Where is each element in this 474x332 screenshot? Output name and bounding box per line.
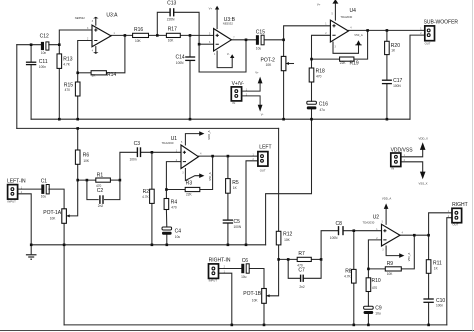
svg-text:4.7K: 4.7K [63, 63, 70, 67]
wire C11 top lead [30, 45, 32, 62]
svg-text:V50_A: V50_A [407, 253, 411, 262]
wire U2 VDD stem [385, 208, 387, 224]
resistor R3 [185, 187, 200, 191]
svg-text:10n: 10n [41, 51, 47, 55]
resistor R5 [226, 179, 231, 194]
resistor R12 [276, 231, 281, 245]
resistor R19 [340, 57, 354, 61]
wire node to C3 [120, 152, 137, 180]
resistor R17 [166, 33, 180, 37]
svg-text:100n: 100n [130, 157, 137, 161]
junction dots middle [30, 151, 247, 246]
svg-text:V+: V+ [209, 7, 213, 11]
V+ arrow [258, 77, 263, 84]
wire node up to C8 [321, 231, 338, 260]
svg-text:C4: C4 [175, 229, 182, 235]
wire left input column [16, 45, 18, 129]
VSS_X arrow [420, 172, 426, 180]
svg-text:100n: 100n [39, 65, 46, 69]
resistor R16 [133, 33, 149, 37]
svg-text:470: 470 [372, 286, 378, 290]
wire V+/V- pin1 to V+ arrow [242, 83, 261, 91]
svg-text:4.7K: 4.7K [344, 275, 351, 279]
wire U4 feedback row to R19 [312, 58, 340, 60]
svg-text:U3:A: U3:A [106, 13, 118, 19]
wire U2 V50_A stem [386, 246, 399, 256]
svg-text:TDA2030: TDA2030 [162, 141, 174, 145]
svg-text:C15: C15 [256, 30, 265, 36]
wire POT-1B bottom to bottom rail [263, 303, 265, 325]
wire U1 VDD_A stem [185, 134, 199, 145]
wire R7 right lead [311, 258, 321, 260]
connector LEFT [258, 152, 268, 167]
wire mix signal rail [17, 127, 279, 129]
svg-text:10u: 10u [41, 194, 47, 198]
svg-text:U4: U4 [350, 8, 357, 14]
svg-text:OUT: OUT [425, 41, 431, 45]
svg-text:10u: 10u [241, 275, 247, 279]
wire U2 output to RIGHT pin1 [400, 213, 452, 235]
svg-text:10K: 10K [266, 63, 273, 67]
wire filter ground rail [31, 118, 410, 120]
resistor R7 [297, 257, 311, 261]
wire U3:A power stubs [95, 19, 97, 53]
wire ground rail to SUB-WOOFER pin2 [410, 35, 425, 119]
connector SUB-WOOFER [425, 26, 435, 41]
potentiometer POT-1B [262, 289, 270, 304]
wire R10 to C9 to bottom rail [367, 292, 369, 325]
wire C11 bottom to ground rail [30, 65, 32, 119]
svg-text:IN: IN [233, 101, 236, 105]
capacitor C13 [170, 8, 174, 16]
svg-text:LEFT: LEFT [259, 145, 271, 151]
wire feedback row to R14 [78, 72, 91, 74]
svg-text:U2: U2 [373, 214, 380, 220]
junction dots top-left [30, 34, 388, 130]
wire U4 output row to SUB-WOOFER pin1 [348, 29, 424, 31]
svg-text:C13: C13 [167, 0, 176, 6]
resistor R15 [75, 82, 80, 96]
svg-text:SUB-WOOFER: SUB-WOOFER [424, 20, 459, 26]
svg-text:V50_A: V50_A [354, 33, 363, 37]
resistor R10 [366, 278, 371, 292]
svg-text:RIGHT: RIGHT [452, 202, 468, 208]
wire R19 to U4 output [354, 30, 368, 59]
wire R1 right lead [110, 179, 120, 181]
wire R17 to U3:B pin5 [180, 34, 213, 36]
wire R2 column [151, 152, 153, 245]
op-amp U3:A [92, 17, 111, 54]
svg-text:C12: C12 [40, 33, 49, 39]
wire U1 V50_A stem [185, 169, 199, 181]
svg-text:C14: C14 [176, 55, 185, 61]
svg-text:RIGHT-IN: RIGHT-IN [209, 258, 231, 264]
resistor R6 [75, 150, 80, 164]
connector VDD/VSS [391, 153, 401, 167]
wire C13 left leg [157, 12, 169, 35]
svg-text:10K: 10K [284, 238, 291, 242]
wire R16 to R17 [149, 34, 167, 36]
wire R9 row [368, 235, 414, 269]
VDD_A arrow U1 [199, 131, 204, 136]
wire R15 top lead [77, 73, 79, 82]
svg-text:220N: 220N [167, 17, 175, 21]
svg-text:R3: R3 [186, 181, 193, 187]
wire R6 leads [77, 128, 79, 180]
svg-text:OUT: OUT [260, 168, 266, 172]
wire C16 bottom to ground path [266, 109, 312, 244]
wire R3 row [166, 156, 212, 189]
svg-text:VSS_X: VSS_X [419, 181, 428, 185]
svg-text:VDD_X: VDD_X [419, 136, 428, 140]
wire mix rail down to R12 [278, 128, 280, 231]
svg-text:INPUT: INPUT [209, 279, 218, 283]
V50_A arrow U2 [399, 253, 404, 258]
wire C8 to U2 pin+ [344, 230, 382, 232]
svg-text:V50_A: V50_A [208, 172, 212, 181]
junction dots top-right [282, 29, 388, 60]
capacitor C12 [41, 42, 49, 50]
svg-text:POT-1B: POT-1B [243, 291, 261, 297]
wire RIGHT-IN pin2 to C6 [219, 268, 242, 270]
capacitor C9 [364, 306, 374, 314]
capacitor C16 [307, 101, 317, 109]
wire POT-2 wiper stub [286, 63, 294, 65]
resistor R1 [96, 178, 111, 182]
svg-text:R11: R11 [433, 260, 442, 266]
svg-text:10K: 10K [252, 298, 259, 302]
svg-text:10K: 10K [168, 39, 175, 43]
wire U4 V+ pin [334, 3, 336, 21]
svg-text:22K: 22K [340, 61, 347, 65]
wire VDD/VSS pin2 to VSS_X arrow [401, 162, 423, 174]
svg-text:R13: R13 [63, 56, 72, 62]
svg-text:C7: C7 [298, 268, 305, 274]
wire C10 bottom to bottom rail [428, 303, 430, 325]
capacitor C4 [162, 227, 172, 235]
wire POT-2 column up to U4 pin+ [284, 26, 331, 57]
wire bottom ground rail [64, 324, 447, 326]
svg-text:R5: R5 [232, 180, 239, 186]
wire V+/V- pin2 to V- arrow [242, 96, 261, 105]
svg-text:POT-1A: POT-1A [43, 210, 61, 216]
svg-text:LEFT-IN: LEFT-IN [7, 178, 26, 184]
wire U3:B V- loop [217, 51, 232, 68]
svg-text:10u: 10u [375, 312, 381, 316]
svg-text:C3: C3 [134, 141, 141, 147]
resistor R9 [385, 267, 401, 271]
wire C15 right to POT-2 column [264, 39, 283, 41]
svg-text:100N: 100N [234, 225, 242, 229]
svg-text:V+: V+ [255, 70, 259, 74]
wire main ground rail [31, 244, 265, 246]
svg-text:100n: 100n [436, 304, 443, 308]
wire U3:B V+ pin [216, 10, 218, 29]
op-amp U1 [181, 145, 198, 169]
wire U1 output row to LEFT pin1 [198, 155, 258, 157]
svg-text:V-: V- [261, 113, 264, 117]
capacitor C7 [301, 275, 304, 282]
resistor R2 [150, 189, 155, 203]
capacitor C17 [382, 80, 392, 83]
svg-text:R16: R16 [134, 27, 143, 33]
wire RIGHT-IN pin1 to bottom rail [219, 273, 232, 325]
svg-text:10K: 10K [83, 159, 90, 163]
svg-text:R6: R6 [83, 152, 90, 158]
svg-text:22K: 22K [186, 193, 193, 197]
svg-text:IN: IN [391, 167, 394, 171]
svg-text:470: 470 [65, 88, 71, 92]
wire node row to R1 [78, 179, 96, 181]
resistor R20 [385, 41, 390, 54]
svg-text:VDD/VSS: VDD/VSS [391, 148, 414, 154]
connector LEFT-IN [8, 185, 18, 200]
svg-text:10K: 10K [135, 39, 142, 43]
V- arrow [258, 105, 263, 112]
resistor R13 [57, 54, 62, 69]
svg-text:V-: V- [227, 52, 230, 56]
wire R15 bottom to ground rail [77, 96, 79, 119]
connector RIGHT [452, 208, 462, 222]
V+ arrow U4 (clipped at top) [332, 0, 338, 4]
svg-text:470: 470 [171, 205, 177, 209]
svg-text:VDD_A: VDD_A [207, 130, 211, 139]
wire C7 loop [288, 259, 321, 278]
svg-text:C6: C6 [242, 258, 249, 264]
svg-text:TDA2030: TDA2030 [363, 221, 375, 225]
wire LEFT-IN pin2 to ground junction [18, 194, 32, 245]
svg-text:INPUT: INPUT [8, 200, 17, 204]
connector V+/V- [231, 87, 241, 101]
capacitor C6 [241, 264, 249, 273]
wire C6 to POT-1B top [250, 269, 264, 289]
capacitor C3 [137, 147, 140, 157]
svg-text:10K: 10K [50, 216, 57, 220]
wire POT-2 bottom to ground rail [283, 71, 285, 120]
wire POT-1A wiper to node [66, 180, 77, 216]
wire R13 top lead [58, 45, 60, 54]
VDD_X arrow [420, 142, 426, 150]
VDD_A arrow U2 [384, 203, 389, 209]
wire U4 inverting input [312, 35, 331, 59]
wire U3:B pin6 [199, 43, 214, 45]
svg-text:4.7K: 4.7K [142, 195, 149, 199]
svg-text:100N: 100N [330, 236, 338, 240]
svg-text:R9: R9 [387, 261, 394, 267]
op-amp U4 [330, 20, 348, 42]
capacitor C8 [339, 226, 344, 235]
wire U2 inverting input [368, 240, 381, 278]
svg-text:R1: R1 [97, 173, 104, 179]
resistor R18 [309, 68, 314, 82]
potentiometer POT-2 [281, 56, 289, 70]
svg-text:2n2: 2n2 [299, 285, 305, 289]
svg-text:R7: R7 [298, 251, 305, 257]
svg-text:C2: C2 [97, 188, 104, 194]
svg-text:10u: 10u [256, 46, 262, 50]
svg-text:100N: 100N [176, 61, 184, 65]
svg-text:470: 470 [316, 75, 322, 79]
svg-text:C16: C16 [319, 102, 328, 108]
wire C3 to U1 pin+ [141, 151, 181, 153]
wire C1 to POT-1A top [49, 189, 64, 209]
wire LEFT-IN pin1 to C1 [18, 188, 42, 190]
svg-text:NE5532: NE5532 [75, 16, 86, 20]
wire R20 to C17 [386, 55, 388, 80]
svg-text:47u: 47u [320, 108, 326, 112]
capacitor C2 [100, 195, 103, 204]
svg-text:10K: 10K [387, 272, 394, 276]
svg-text:OUT: OUT [453, 223, 459, 227]
V- arrow U3:B [230, 54, 234, 58]
capacitor C1 [41, 185, 49, 194]
op-amp U2 [382, 224, 401, 246]
wire LEFT pin2 to ground rail [246, 161, 258, 245]
junction dots bottom [231, 229, 430, 326]
wire ground symbol stub [30, 245, 32, 254]
svg-text:R17: R17 [168, 26, 177, 32]
wire R13 bottom to ground rail [58, 68, 60, 119]
V+ arrow U3:B [215, 6, 219, 10]
wire U3:B output to C15 [231, 39, 255, 41]
svg-text:C11: C11 [39, 59, 48, 65]
wire C13 right leg to U3:B pin6 column [174, 12, 199, 72]
capacitor C5 [223, 220, 233, 223]
wire R14 to output column [106, 35, 125, 72]
capacitor C11 [26, 62, 36, 64]
svg-text:VDD_A: VDD_A [382, 197, 391, 201]
potentiometer POT-1A [62, 209, 70, 224]
svg-text:10u: 10u [175, 235, 181, 239]
svg-text:V+/V-: V+/V- [232, 81, 245, 87]
svg-text:R10: R10 [372, 278, 381, 284]
wire R18 leads [311, 59, 313, 101]
wire input row to C12 [17, 44, 41, 46]
svg-text:NE5532: NE5532 [223, 21, 234, 25]
wire U1 inverting input [166, 162, 181, 199]
sheet border [0, 330, 474, 332]
ground symbol [26, 255, 37, 259]
wire R11 leads [428, 235, 430, 298]
wire R4 to C4 [165, 210, 167, 245]
wire node row to R7 [279, 258, 298, 260]
wire U3:A pin2 [78, 41, 92, 73]
capacitor C10 [423, 299, 433, 302]
connector RIGHT-IN [209, 264, 219, 279]
svg-text:V+: V+ [317, 2, 321, 6]
svg-text:2n2: 2n2 [98, 204, 104, 208]
V50_A arrow U4 [355, 40, 361, 45]
wire C17 bottom to ground rail [386, 84, 388, 119]
svg-text:R14: R14 [107, 72, 116, 78]
wire U3:A output row [111, 34, 133, 36]
wire R8 column [353, 231, 355, 325]
svg-text:C1: C1 [41, 179, 48, 185]
wire C14 column [189, 35, 191, 119]
svg-text:TDA2030: TDA2030 [340, 15, 352, 19]
wire U3:B feedback loop [199, 40, 246, 72]
resistor R4 [164, 199, 169, 210]
wire RIGHT pin2 to bottom rail [447, 218, 452, 325]
op-amp U3:B [214, 29, 232, 51]
resistor R14 [91, 71, 106, 75]
wire POT-1B wiper to node [266, 259, 278, 295]
wire POT-1A bottom to bottom rail [63, 223, 65, 325]
wire VDD/VSS pin1 to VDD_X arrow [401, 148, 423, 157]
svg-text:100N: 100N [393, 84, 401, 88]
capacitor C15 [256, 35, 264, 45]
resistor R8 [352, 269, 357, 283]
wire R12 bottom to node [278, 245, 280, 260]
svg-text:R19: R19 [350, 61, 359, 67]
wire U4 V50_A loop [333, 42, 359, 53]
V50_A arrow U1 [199, 173, 204, 178]
resistor R11 [426, 260, 431, 274]
svg-text:C8: C8 [336, 221, 343, 227]
svg-text:R12: R12 [283, 232, 292, 238]
capacitor C14 [185, 57, 195, 60]
wire C2 loop [87, 180, 120, 200]
wire R20 top lead [386, 30, 388, 41]
wire C12 to U3:A pin3 corner [49, 30, 92, 45]
wire R5 C5 column [227, 156, 229, 245]
